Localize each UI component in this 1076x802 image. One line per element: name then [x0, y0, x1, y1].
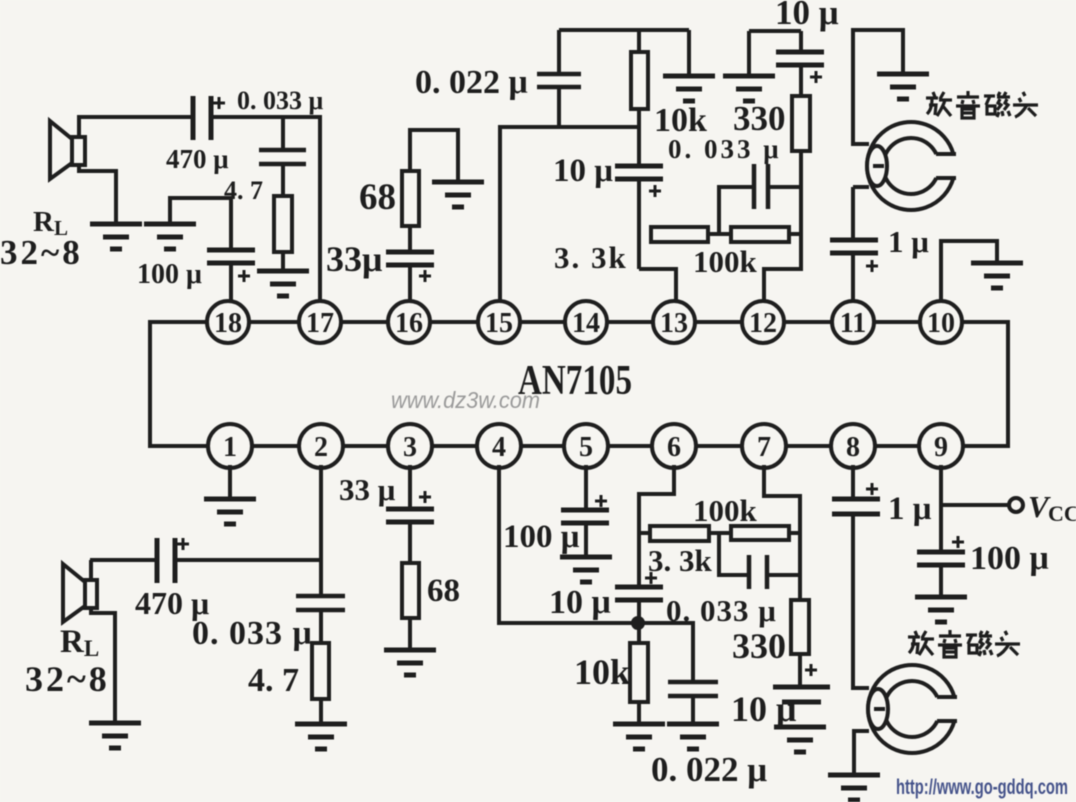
svg-text:5: 5 — [579, 432, 593, 463]
wire pin8 down — [851, 465, 855, 499]
capacitor 33u top — [386, 252, 434, 265]
resistor 330 top — [792, 96, 810, 151]
wire 3.3k-100k bottom — [709, 531, 731, 535]
ground head bottom — [828, 775, 880, 800]
wire 68 ground bottom — [408, 618, 412, 650]
pin 15 — [478, 301, 520, 343]
wire 0.033 to 4.7 bottom — [319, 610, 323, 643]
svg-text:1 μ: 1 μ — [888, 224, 929, 259]
speaker RL top — [50, 121, 85, 179]
wire 330 down — [798, 654, 802, 686]
svg-text:10 μ: 10 μ — [553, 153, 613, 189]
wire 100u ground right — [939, 565, 943, 597]
ground 4.7 bottom — [295, 724, 347, 749]
svg-text:0. 022 μ: 0. 022 μ — [651, 750, 767, 789]
wire pin11 up — [851, 253, 855, 301]
capacitor 10u top-mid — [615, 166, 663, 179]
wire pin5 down — [584, 465, 588, 510]
svg-text:17: 17 — [306, 308, 334, 339]
svg-text:68: 68 — [427, 573, 460, 609]
ground pin1 — [228, 465, 232, 499]
pin 6 — [652, 424, 696, 468]
ground 100u bottom-mid — [560, 557, 612, 582]
svg-text:330: 330 — [733, 99, 786, 138]
svg-text:0. 033 μ: 0. 033 μ — [237, 86, 324, 115]
wire node to 0.022 — [644, 623, 693, 682]
svg-text:10 μ: 10 μ — [731, 689, 796, 729]
svg-text:0. 022 μ: 0. 022 μ — [415, 64, 528, 101]
svg-text:3. 3k: 3. 3k — [648, 543, 713, 578]
resistor 4.7 top — [274, 196, 292, 252]
pin 2 — [299, 424, 343, 468]
ground 100u top + wire — [170, 198, 231, 250]
IC outline left edge — [150, 322, 208, 446]
wires 0.033u bottom-mid — [719, 533, 800, 575]
svg-text:4: 4 — [492, 432, 506, 463]
pin 14 — [565, 301, 607, 343]
plus 100u top — [238, 270, 250, 282]
plus 100u bottom-right — [952, 536, 964, 548]
pin 3 — [388, 424, 432, 468]
svg-text:13: 13 — [660, 308, 688, 339]
svg-text:100k: 100k — [693, 493, 758, 528]
resistor 3.3k top — [651, 227, 708, 242]
capacitor 1u top — [830, 240, 878, 253]
wire 100u ground — [584, 523, 588, 557]
wire pin10 to ground — [941, 241, 997, 301]
capacitor 10u bottom-right — [773, 687, 830, 702]
ground 0.022u bottom — [667, 724, 719, 749]
wires 0.022u top — [557, 30, 561, 127]
resistor 100k bottom — [731, 526, 789, 540]
svg-text:100 μ: 100 μ — [970, 540, 1049, 577]
wires 10u top-right — [799, 31, 803, 96]
plus 10u bottom-mid — [645, 572, 657, 584]
svg-text:6: 6 — [667, 432, 681, 463]
ground 10u bottom-right — [774, 727, 826, 752]
resistor 68 bottom — [402, 563, 419, 618]
wire junction to 0.033u — [281, 117, 285, 196]
capacitor 10u bottom-mid — [615, 587, 663, 600]
capacitor 100u top — [207, 250, 255, 263]
ground 68 bottom — [384, 650, 436, 675]
svg-text:68: 68 — [359, 177, 396, 218]
svg-text:15: 15 — [485, 308, 513, 339]
resistor 10k bottom — [630, 643, 648, 702]
pin 16 — [388, 301, 430, 343]
pin 4 — [477, 424, 521, 468]
playback head bottom — [868, 665, 957, 753]
wire 330 down, to pin12 — [764, 151, 801, 301]
ground 68 top — [432, 182, 484, 207]
svg-text:1 μ: 1 μ — [888, 491, 932, 527]
wire 1u to head bottom — [853, 514, 869, 688]
wire pin6 down-left — [639, 465, 674, 587]
plus 10u top-right — [810, 71, 822, 83]
pin 17 — [299, 301, 341, 343]
plus 470u top — [213, 97, 225, 109]
resistor 330 bottom — [791, 600, 809, 654]
plus 33u top — [419, 270, 431, 282]
svg-text:http://www.go-gddq.com: http://www.go-gddq.com — [896, 776, 1068, 799]
pin 18 — [207, 301, 249, 343]
svg-text:330: 330 — [732, 626, 786, 666]
label playback head top — [926, 91, 1038, 118]
capacitor 0.022u top — [537, 74, 581, 87]
svg-text:3: 3 — [403, 432, 417, 463]
Vcc terminal — [1009, 498, 1023, 512]
playback head top — [867, 122, 956, 210]
resistor 3.3k bottom — [650, 526, 709, 541]
svg-text:100 μ: 100 μ — [503, 519, 580, 555]
svg-text:18: 18 — [214, 308, 242, 339]
IC outline right edge — [962, 322, 1008, 446]
svg-text:32~8: 32~8 — [25, 659, 110, 699]
label playback head bottom — [908, 630, 1020, 657]
resistor 100k top — [731, 227, 789, 242]
pin 8 — [831, 424, 875, 468]
plus 1u bottom — [866, 483, 878, 495]
wire pin4 to node — [499, 465, 632, 623]
pin 7 — [742, 424, 786, 468]
svg-text:10: 10 — [927, 308, 955, 339]
plus 100u bottom-mid — [595, 495, 607, 507]
wire 100k right bottom — [789, 531, 800, 535]
ground speaker top — [90, 224, 142, 249]
plus 33u bottom — [419, 491, 431, 503]
head bottom lower lead to ground — [854, 731, 869, 775]
capacitor 0.022u bottom — [668, 682, 718, 696]
ground 10k bottom — [613, 724, 665, 749]
head top leads — [853, 30, 903, 187]
svg-text:33μ: 33μ — [326, 239, 382, 279]
svg-text:16: 16 — [395, 308, 423, 339]
svg-text:1: 1 — [223, 432, 237, 463]
wire 0.022 ground — [691, 696, 695, 724]
svg-text:470 μ: 470 μ — [166, 144, 229, 174]
wire 10k ground — [637, 702, 641, 724]
wire 470u to pin17 — [211, 117, 320, 301]
svg-text:12: 12 — [749, 308, 777, 339]
capacitor 0.033u bottom-mid plates — [749, 555, 767, 589]
wire pin7 down — [764, 465, 800, 600]
svg-text:7: 7 — [757, 432, 771, 463]
speaker bottom wires — [91, 560, 115, 723]
wire 3.3k left stub — [639, 531, 650, 535]
wire 4.7 to ground — [281, 252, 285, 271]
pin 13 — [653, 301, 695, 343]
wire pin15 up — [500, 127, 639, 301]
wire 100u to pin18 — [229, 263, 233, 301]
wire 470u bottom — [90, 558, 321, 562]
svg-text:14: 14 — [572, 308, 600, 339]
resistor 10k top — [631, 52, 648, 109]
wire B top — [749, 29, 801, 33]
svg-text:100 μ: 100 μ — [137, 259, 202, 290]
capacitor 10u top-right — [776, 52, 824, 65]
wire 10u down to 3.3k node — [637, 179, 641, 269]
svg-text:4. 7: 4. 7 — [248, 662, 299, 699]
ground under 4.7 top — [257, 271, 309, 296]
svg-text:0. 033 μ: 0. 033 μ — [668, 134, 782, 164]
speaker RL top wires — [79, 117, 193, 139]
ground speaker bottom — [89, 723, 141, 748]
svg-text:10 μ: 10 μ — [775, 0, 839, 32]
wire to pin13 — [639, 269, 676, 301]
capacitor 100u bottom-right — [917, 552, 965, 565]
ground wire A top — [687, 30, 691, 76]
svg-text:10 μ: 10 μ — [549, 584, 611, 621]
capacitor 0.033u top-mid plates — [754, 164, 768, 209]
svg-text:9: 9 — [934, 432, 948, 463]
svg-text:2: 2 — [314, 432, 328, 463]
capacitor 33u bottom — [386, 509, 434, 522]
resistor 4.7 bottom — [312, 643, 329, 699]
svg-text:8: 8 — [846, 432, 860, 463]
wire A top — [559, 28, 689, 32]
capacitor 470u top plates — [193, 96, 211, 140]
wire 33u to pin16 — [408, 265, 412, 301]
wires 10k top — [637, 30, 641, 166]
wire 4.7 ground bottom — [319, 699, 323, 724]
pin 10 — [920, 301, 962, 343]
pin 12 — [742, 301, 784, 343]
svg-text:33 μ: 33 μ — [339, 472, 396, 507]
svg-text:0. 033 μ: 0. 033 μ — [192, 615, 313, 652]
ground pin10 — [971, 263, 1023, 288]
wire 33u to 68 bottom — [408, 522, 412, 563]
svg-text:10k: 10k — [574, 652, 630, 692]
capacitor 1u bottom — [832, 499, 880, 514]
resistor 68 top — [402, 171, 419, 226]
wire pin2 down — [319, 465, 323, 596]
svg-text:3. 3k: 3. 3k — [554, 240, 628, 275]
wire bottom row between pins — [251, 444, 300, 448]
capacitor 100u bottom-mid — [561, 510, 609, 523]
wires 0.033u top-mid — [719, 187, 801, 234]
wire pin3 down — [408, 465, 412, 510]
node dot — [631, 616, 645, 630]
wire pin9 down — [939, 465, 943, 553]
pin 9 — [919, 424, 963, 468]
svg-text:CC: CC — [1048, 501, 1076, 526]
svg-text:32~8: 32~8 — [0, 233, 83, 272]
wire top row between pins — [249, 320, 299, 324]
pin 5 — [564, 424, 608, 468]
plus 470u bottom — [177, 538, 189, 550]
plus 10u top-mid — [649, 185, 661, 197]
plus 1u top — [866, 260, 878, 272]
wire 1u to head — [851, 187, 855, 240]
wire 68 top to ground — [410, 130, 458, 182]
speaker RL bottom — [63, 564, 97, 622]
wire 10u to node — [637, 600, 641, 643]
ground head top — [877, 74, 929, 99]
wire 68 to 33u — [408, 226, 412, 252]
ground 100u bottom-right — [915, 597, 967, 622]
pin 1 — [208, 424, 252, 468]
wire 100k right top — [789, 232, 801, 236]
pin 11 — [832, 301, 874, 343]
ground wire B — [747, 31, 751, 76]
svg-text:www.dz3w.com: www.dz3w.com — [391, 387, 540, 413]
svg-text:100k: 100k — [693, 244, 758, 279]
capacitor 0.033u top-left — [259, 150, 306, 164]
wire Vcc — [941, 503, 1008, 507]
capacitor 470u bottom — [157, 538, 175, 583]
capacitor 0.033u bottom — [296, 596, 345, 610]
svg-text:11: 11 — [840, 308, 866, 339]
plus 10u bottom-right — [805, 664, 817, 676]
svg-text:0. 033 μ: 0. 033 μ — [666, 593, 777, 628]
wire between 3.3k and 100k top — [708, 232, 731, 236]
